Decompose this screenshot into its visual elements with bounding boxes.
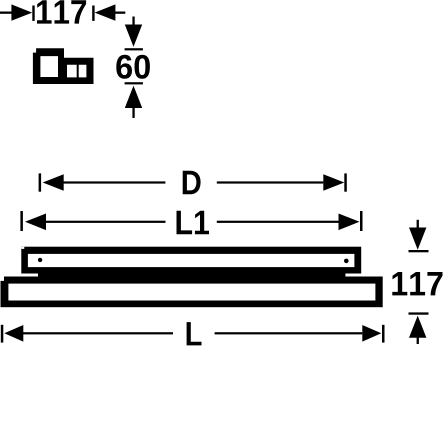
dimension L right arrow [362, 325, 381, 342]
dimension L left arrow [4, 325, 23, 342]
label D [183, 171, 201, 194]
dimension L1 line right segment [217, 221, 339, 223]
dimension 117 (right) bottom tick [409, 312, 429, 314]
label 117 (right) [392, 272, 442, 295]
dimension 117 (top) right arrow [95, 4, 126, 20]
label L1 [177, 211, 210, 234]
dimension L line right segment [215, 332, 363, 334]
dimension 117 (top) right tick [92, 6, 94, 21]
louvre strip between tray and frame [38, 271, 345, 278]
dimension L1 right arrow [339, 214, 360, 231]
dimension 117 (top) left tick [32, 6, 34, 21]
dimension D line left segment [63, 181, 165, 183]
screw left [38, 258, 42, 262]
dimension D right arrow [323, 174, 344, 191]
dimension L line left segment [23, 332, 174, 334]
dimension 60 top tick [125, 48, 143, 50]
dimension L1 right tick [360, 211, 363, 231]
dimension L left tick [1, 325, 4, 343]
label 117 (top) [37, 0, 86, 23]
dimension 60 (vertical) top arrow [125, 17, 142, 47]
screw right [344, 259, 349, 264]
dimension L right tick [382, 325, 385, 343]
dimension 117 (right) top tick [409, 250, 429, 252]
dimension 117 (right) bottom arrow [409, 316, 426, 344]
dimension D left arrow [43, 174, 64, 191]
dimension L1 line left segment [45, 221, 165, 223]
dimension D right tick [344, 173, 347, 191]
luminaire gear tray (top rectangle) [21, 247, 361, 274]
label 60 [116, 55, 150, 79]
dimension 117 (top, horizontal) left arrow [0, 4, 32, 20]
dimension 60 bottom tick [125, 82, 143, 84]
dimension D left tick [39, 173, 42, 191]
dimension L1 left arrow [25, 214, 46, 231]
dimension 60 bottom arrow [125, 86, 142, 118]
luminaire frame (bottom rectangle) [1, 277, 383, 308]
dimension L1 left tick [20, 211, 23, 231]
dimension 117 (right, vertical) top arrow [409, 220, 426, 250]
label L [187, 322, 202, 345]
luminaire cross-section glyph (end view) [33, 48, 94, 84]
dimension D line right segment [217, 181, 323, 183]
